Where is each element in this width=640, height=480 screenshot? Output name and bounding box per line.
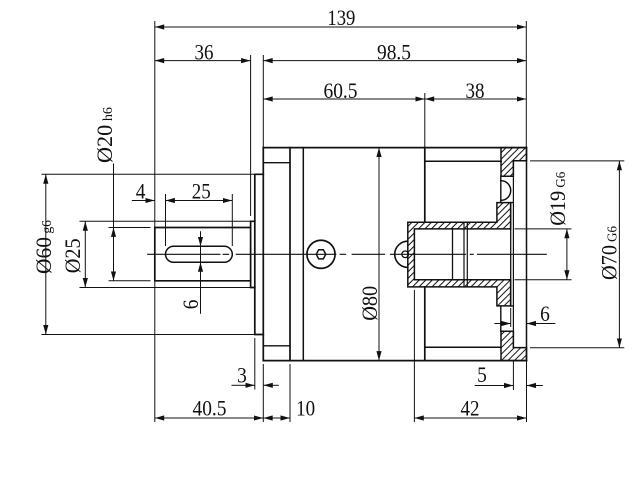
flange rear face bbox=[526, 148, 528, 361]
ext Ø25 top bbox=[80, 220, 251, 222]
svg-text:5: 5 bbox=[477, 362, 487, 387]
dim keyway 6 line bbox=[200, 231, 202, 313]
center screw dome on sleeve bbox=[395, 241, 408, 267]
ext Ø60 bottom bbox=[42, 334, 255, 336]
dim Ø60 line bbox=[45, 174, 47, 334]
ext Ø70 top bbox=[530, 160, 624, 162]
dimension lines with arrows bbox=[46, 27, 620, 418]
dim Ø80 line bbox=[378, 148, 380, 361]
ext shaft end upper bbox=[154, 21, 156, 228]
shaft joint line in bore bbox=[452, 229, 454, 280]
ext collar face bbox=[250, 55, 252, 216]
ext recess floor for dim 6 bbox=[510, 308, 512, 327]
clamp slit lines bbox=[464, 222, 467, 287]
ext plate front upper bbox=[262, 55, 264, 148]
thin lines: extensions bbox=[42, 21, 625, 422]
dim 5 line bbox=[475, 385, 498, 387]
ext Ø25 bottom bbox=[80, 287, 251, 289]
svg-text:6: 6 bbox=[540, 301, 550, 326]
ext Ø20 top bbox=[109, 227, 151, 229]
dim Ø25 line bbox=[84, 221, 86, 287]
svg-text:4: 4 bbox=[136, 179, 146, 204]
svg-text:Ø25: Ø25 bbox=[60, 238, 85, 273]
ext body face bbox=[424, 93, 426, 148]
dim Ø19 line bbox=[566, 229, 568, 280]
svg-text:36: 36 bbox=[195, 39, 214, 64]
dim 25 line bbox=[166, 200, 233, 202]
dim 60.5 line bbox=[263, 98, 425, 100]
shaft collar (Ø25) bbox=[251, 221, 255, 287]
shaft body (Ø20 section) bbox=[155, 228, 251, 281]
cavity bore lines (Ø70 inner) bbox=[425, 161, 501, 347]
ext Ø70 bottom bbox=[530, 347, 624, 349]
svg-text:Ø80: Ø80 bbox=[357, 286, 382, 321]
plate step lines bbox=[263, 163, 290, 346]
pilot boss (Ø60) bbox=[255, 174, 263, 334]
ext rear face upper bbox=[525, 21, 527, 148]
ext Ø19 top bbox=[515, 228, 572, 230]
ext plate rear for dim 10 bbox=[289, 364, 291, 422]
dim Ø70 line bbox=[618, 161, 620, 348]
ext rear face lower bbox=[526, 361, 528, 422]
ext sleeve left for dim 42 bbox=[413, 290, 415, 422]
coupling sleeve (hatched section) bbox=[408, 203, 511, 306]
housing bottom edge bbox=[263, 360, 526, 362]
dim 139 line bbox=[155, 26, 527, 28]
ext Ø20 bottom bbox=[109, 280, 151, 282]
housing ring joint line bbox=[302, 148, 304, 361]
screw hole front edges bbox=[501, 176, 514, 331]
svg-text:6: 6 bbox=[178, 300, 203, 310]
recess inner step line bbox=[512, 161, 514, 348]
side screw: hex socket bbox=[316, 250, 326, 259]
ext Ø19 bottom bbox=[515, 279, 572, 281]
svg-text:139: 139 bbox=[327, 5, 355, 30]
pilot recess floor line bbox=[510, 203, 512, 306]
housing top edge bbox=[263, 147, 526, 149]
dimension texts bbox=[31, 5, 622, 420]
dim 38 line bbox=[425, 98, 527, 100]
dim 3 line bbox=[232, 384, 243, 386]
dim 36 line bbox=[155, 60, 251, 62]
ext keyway right bbox=[231, 194, 233, 246]
center screw tip circle bbox=[402, 251, 409, 258]
housing right face bbox=[424, 148, 426, 361]
keyway slot bbox=[166, 246, 233, 262]
ext plate front lower bbox=[262, 364, 264, 422]
ext shaft end lower bbox=[154, 281, 156, 422]
ext pilot left for dim 3 bbox=[254, 338, 256, 390]
svg-text:25: 25 bbox=[192, 179, 211, 204]
svg-text:3: 3 bbox=[237, 362, 247, 387]
svg-text:60.5: 60.5 bbox=[324, 78, 358, 103]
dim Ø20 line bbox=[113, 164, 115, 228]
dim 98.5 line bbox=[263, 60, 526, 62]
svg-text:98.5: 98.5 bbox=[377, 39, 411, 64]
svg-text:42: 42 bbox=[461, 395, 480, 420]
svg-text:40.5: 40.5 bbox=[193, 395, 227, 420]
flange top section (hatched) bbox=[501, 148, 527, 177]
ext Ø60 top bbox=[42, 173, 255, 175]
dim 42 line bbox=[414, 417, 526, 419]
dim rear 6 line bbox=[494, 323, 510, 325]
ext keyway left bbox=[165, 194, 167, 246]
screw dome in flange hole bbox=[501, 181, 511, 201]
front plate outline bbox=[263, 148, 290, 361]
ext recess step for dim 5 bbox=[512, 361, 514, 390]
svg-text:10: 10 bbox=[296, 395, 315, 420]
dim 10 line bbox=[263, 417, 290, 419]
wire: axis center line bbox=[148, 253, 547, 255]
dim 4 line bbox=[132, 200, 155, 202]
dim 40.5 line bbox=[155, 417, 263, 419]
svg-text:38: 38 bbox=[466, 78, 485, 103]
side screw: head circle bbox=[307, 240, 335, 268]
flange bottom section (hatched) bbox=[501, 331, 527, 360]
